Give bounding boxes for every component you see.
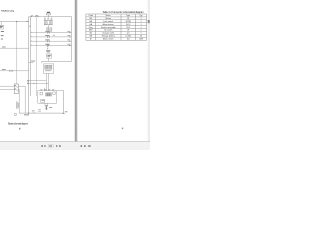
footnote symbols xyxy=(15,114,17,116)
svg-text:24: 24 xyxy=(140,36,142,38)
stub label xyxy=(29,61,34,63)
wire from box to right drop xyxy=(57,90,64,92)
wires from relay down xyxy=(44,73,48,90)
svg-text:Electric schematic diagram: Electric schematic diagram xyxy=(8,122,28,125)
svg-text:Table 3-4 Connector schematica: Table 3-4 Connector schematical diagram xyxy=(103,11,144,14)
drop to wire row1 xyxy=(47,31,49,32)
big control box U1 xyxy=(38,91,57,104)
pin labels above box xyxy=(40,89,54,92)
wire fuse to rail xyxy=(47,15,49,17)
wire row 2 xyxy=(31,36,72,38)
fuse F1 xyxy=(46,13,50,15)
wire from battery to bus xyxy=(0,21,29,23)
wires into connector xyxy=(0,86,14,89)
long rail mid xyxy=(42,61,72,63)
pin labels left column xyxy=(1,31,4,39)
rail 2 xyxy=(44,19,53,21)
svg-text:1: 1 xyxy=(140,27,141,29)
svg-text:JK230: JK230 xyxy=(126,21,131,23)
bus wire 1 xyxy=(28,17,30,114)
ground symbol component xyxy=(45,106,48,110)
bus side tick xyxy=(29,25,31,28)
svg-text:Plug: Plug xyxy=(89,27,93,29)
scrollbar thumb xyxy=(148,20,150,23)
junction arrow mid xyxy=(16,21,18,22)
svg-text:2: 2 xyxy=(140,30,141,32)
relay contact box K1b xyxy=(49,21,52,25)
svg-text:Code: Code xyxy=(88,15,93,17)
svg-text:1: 1 xyxy=(140,24,141,26)
svg-text:1: 1 xyxy=(140,21,141,23)
bottom toolbar xyxy=(0,142,150,151)
svg-text:Button: Button xyxy=(105,17,110,20)
display cell inside U1 xyxy=(41,99,45,102)
wire switch to rail xyxy=(48,58,50,61)
relay contact box K1a xyxy=(44,21,47,25)
top rail to fuse group xyxy=(29,16,44,18)
svg-text:Fork lift truck wiring: Fork lift truck wiring xyxy=(1,10,15,13)
svg-text:Socket assembly: Socket assembly xyxy=(101,26,115,29)
contact pair 2 xyxy=(47,28,52,32)
scrollbar track xyxy=(148,0,150,142)
svg-text:Qty: Qty xyxy=(140,14,143,17)
battery box at left edge xyxy=(0,22,4,30)
svg-text:Lock switch: Lock switch xyxy=(103,20,113,23)
meter label xyxy=(38,108,40,111)
wires from control box down xyxy=(45,103,48,105)
right border wire xyxy=(71,17,73,62)
lamp drops xyxy=(44,17,52,20)
inline relay coil symbol xyxy=(35,14,38,17)
vertical wire x36 xyxy=(36,17,38,96)
svg-text:Motor switch: Motor switch xyxy=(103,38,114,41)
wire row 1 xyxy=(31,32,72,34)
wire to relay B xyxy=(27,83,49,84)
svg-text:Tip switch: Tip switch xyxy=(104,29,112,32)
label text block xyxy=(46,49,50,52)
drop to second pair xyxy=(47,25,49,28)
wire left row B xyxy=(0,70,29,72)
svg-text:Storage battery: Storage battery xyxy=(102,35,115,38)
svg-text:Charger outlet: Charger outlet xyxy=(102,32,114,35)
table grid xyxy=(86,14,147,40)
rail 3 xyxy=(44,24,53,26)
terminal marks near bottom wire xyxy=(32,110,35,113)
junction arrow at bus xyxy=(27,21,29,22)
wire row 4 xyxy=(31,45,72,47)
page background xyxy=(0,0,150,150)
page number xyxy=(19,128,21,130)
svg-text:1DW: 1DW xyxy=(139,39,143,41)
pager icons xyxy=(41,145,60,147)
rail 1 xyxy=(44,16,72,18)
ground label xyxy=(49,106,52,109)
svg-text:D-586: D-586 xyxy=(126,36,131,38)
divider band between pages xyxy=(75,0,78,142)
bottom ground wire xyxy=(19,91,65,114)
bus wire 2 xyxy=(30,17,32,96)
svg-text:CD2: CD2 xyxy=(126,27,130,29)
fuse F1 label xyxy=(47,12,50,13)
zoom icons xyxy=(81,145,91,147)
svg-text:Alarm buzzer: Alarm buzzer xyxy=(103,23,115,26)
svg-text:Name: Name xyxy=(106,15,111,17)
inline switch symbol xyxy=(31,14,33,17)
svg-text:DL12: DL12 xyxy=(126,24,131,26)
sensor symbol xyxy=(47,48,49,49)
wire to relay A xyxy=(27,80,46,81)
wire left row A xyxy=(0,47,29,49)
table cell text xyxy=(88,14,143,40)
wires out of connector xyxy=(18,86,25,113)
svg-text:1: 1 xyxy=(140,18,141,20)
right page number xyxy=(122,128,124,130)
switch box S1 xyxy=(47,54,52,58)
svg-text:SB2: SB2 xyxy=(89,30,93,32)
svg-text:1: 1 xyxy=(140,33,141,35)
rotated net label xyxy=(17,102,19,109)
vertical wire from junction to connector box xyxy=(16,22,18,85)
svg-text:Type: Type xyxy=(126,15,130,17)
wire label under row1 xyxy=(53,34,55,37)
end arrow label xyxy=(65,110,68,113)
relay box K2 xyxy=(44,64,54,73)
wire row 3 xyxy=(31,40,72,42)
connector X1 xyxy=(14,84,18,94)
